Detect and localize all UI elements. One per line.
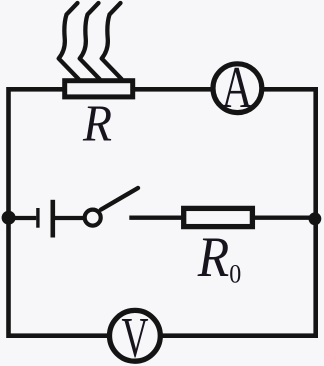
light ray arrow 2 xyxy=(80,3,100,79)
battery cell: short plate xyxy=(36,208,39,228)
svg-text:R: R xyxy=(82,95,112,152)
resistor R0 body xyxy=(184,208,253,226)
svg-text:0: 0 xyxy=(229,259,241,289)
wire: middle branch left (battery feed) xyxy=(9,216,37,220)
node: left junction dot xyxy=(2,211,16,225)
wire: battery to switch xyxy=(55,216,90,220)
wire: outer rectangle loop xyxy=(9,89,316,335)
resistor R body xyxy=(65,81,133,97)
voltmeter V body xyxy=(109,310,160,361)
svg-text:R: R xyxy=(197,226,229,289)
wire: switch to R0 and on to right wire xyxy=(129,216,315,220)
svg-text:V: V xyxy=(122,306,149,366)
svg-text:A: A xyxy=(222,54,253,120)
switch lever (open) xyxy=(101,188,138,210)
switch pivot circle xyxy=(85,210,101,226)
ammeter A body xyxy=(213,64,262,113)
node: right junction dot xyxy=(309,212,322,225)
battery cell: long plate xyxy=(50,200,55,238)
light ray arrow 3 xyxy=(102,3,122,79)
light ray arrow 1 xyxy=(59,3,79,79)
